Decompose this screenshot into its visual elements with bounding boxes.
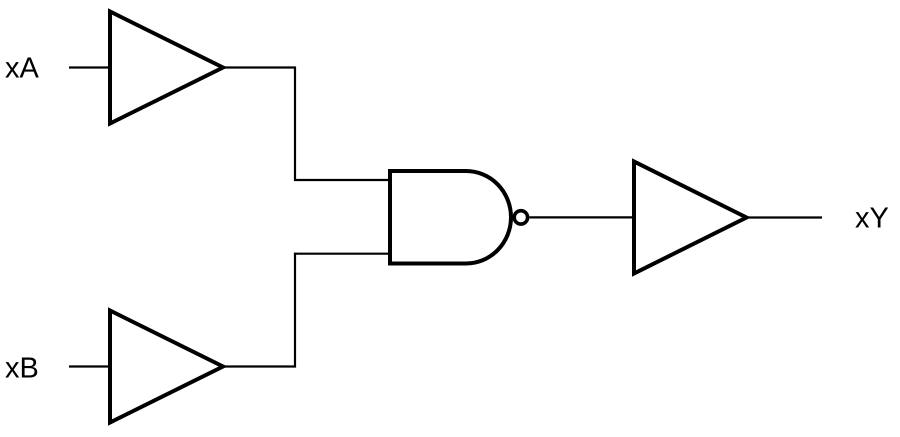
svg-text:xA: xA	[5, 53, 40, 85]
buffer U1 (top)	[110, 12, 223, 124]
wire vertical up from U2	[294, 253, 296, 368]
wire NAND output	[529, 216, 635, 218]
nand U3 body	[390, 171, 511, 264]
svg-text:xB: xB	[5, 353, 39, 385]
buffer U4 (output)	[634, 162, 747, 274]
wire xA input	[69, 66, 112, 68]
buffer U2 (bottom)	[110, 311, 223, 423]
wire U2 output horizontal	[223, 365, 296, 367]
nand U3 inversion bubble	[514, 211, 527, 224]
wire horizontal into NAND upper input	[294, 179, 391, 181]
wire xB input	[69, 365, 112, 367]
svg-text:xY: xY	[855, 203, 889, 235]
wire vertical down from U1	[294, 67, 296, 182]
wire xY output	[747, 216, 823, 218]
wire horizontal into NAND lower input	[294, 253, 391, 255]
wire U1 output horizontal	[223, 66, 296, 68]
